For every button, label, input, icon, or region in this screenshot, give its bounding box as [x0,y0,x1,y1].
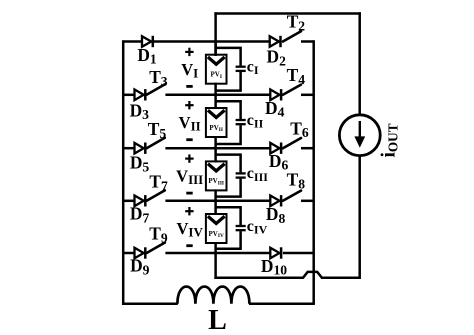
switch T3 lever [147,84,165,94]
svg-text:D4: D4 [265,98,285,120]
diode D1 [142,36,153,47]
wire center column top segment [214,12,217,56]
label D9 [130,256,150,278]
svg-text:T2: T2 [287,12,306,34]
svg-text:T9: T9 [149,224,168,246]
svg-text:D8: D8 [266,204,286,226]
label VII [179,113,201,134]
diode D2 [270,36,281,47]
wire row5 from left bus to D9 [123,252,134,255]
wire row2 from center column to D4 [214,94,270,97]
svg-text:PVIV: PVIV [209,230,224,239]
wire PVI box to lower node [214,83,217,96]
wire PVIV box to lower node [214,242,217,254]
svg-text:T3: T3 [149,67,168,89]
label plus terminal VII [185,101,193,109]
wire capacitor CI top stub [216,48,241,66]
svg-text:VI: VI [181,60,198,81]
label minus terminal VIII [186,192,192,195]
label minus terminal VIV [186,244,192,247]
wire row4 T8 fixed contact to inner bus [301,200,314,203]
svg-text:PVII: PVII [209,124,223,133]
wire row3 from center column to D6 [214,147,270,150]
svg-text:T4: T4 [287,65,306,87]
wire row4 from T7 fixed contact to center column [165,200,216,203]
svg-text:D6: D6 [269,151,289,173]
svg-text:D2: D2 [267,47,287,69]
svg-text:T7: T7 [149,172,168,194]
svg-text:VII: VII [179,113,201,134]
wire row3 T6 fixed contact to inner bus [301,147,314,150]
svg-text:iOUT: iOUT [379,123,401,157]
diode D5 [135,143,146,154]
label T6 [290,118,309,140]
label T9 [149,224,168,246]
wire row3 from left bus to D5 [123,147,134,150]
diode D3 [135,89,146,100]
svg-text:D7: D7 [130,204,150,226]
wire capacitor CIV bottom stub [216,231,241,249]
wire capacitor CII bottom stub [216,125,241,144]
label VIV [177,219,204,240]
wire PVIII box to lower node [214,189,217,202]
svg-text:T5: T5 [148,119,167,141]
wire row5 from D10 to inner bus [283,252,314,255]
svg-text:D5: D5 [130,153,150,175]
diode D8 [270,195,281,206]
wire row1 T2 fixed contact to inner bus [301,40,314,43]
svg-text:T8: T8 [287,170,306,192]
switch T4 lever [283,85,301,95]
label D1 [137,45,157,67]
wire PVII box to lower node [214,136,217,149]
label T4 [287,65,306,87]
label minus terminal VI [186,85,192,88]
svg-text:VIV: VIV [177,219,204,240]
switch T6 lever [283,138,301,148]
label T8 [287,170,306,192]
label D8 [266,204,286,226]
label T5 [148,119,167,141]
capacitor CII [236,120,246,124]
svg-text:D9: D9 [130,256,150,278]
label VIII [176,167,203,188]
wire center column bottom segment to return node [214,253,217,279]
label plus terminal VI [185,48,193,56]
label VI [181,60,198,81]
photovoltaic module PVIII [206,161,227,190]
label T7 [149,172,168,194]
svg-text:L: L [208,305,227,335]
wire column row3 junction to PVIII box [214,147,217,162]
wire column row1 junction to PVI box [214,40,217,55]
svg-text:cII: cII [247,112,264,131]
svg-text:cIII: cIII [247,165,268,184]
svg-text:T6: T6 [290,118,309,140]
diode D10 [270,247,281,258]
label T2 [287,12,306,34]
diode D6 [270,143,281,154]
label CIII [247,165,268,184]
wire capacitor CII top stub [216,101,241,119]
wire column row2 junction to PVII box [214,94,217,109]
label CI [247,59,259,78]
label D4 [265,98,285,120]
label plus terminal VIV [185,207,193,215]
label plus terminal VIII [185,154,193,162]
photovoltaic module PVI [206,55,227,84]
wire row5 from center column to D10 [214,252,270,255]
wire outer right bus upper segment [358,12,361,115]
wire row1 from left bus to D1 [123,40,142,43]
label iOUT [379,123,401,157]
capacitor CIV [236,226,246,230]
label L [208,305,227,335]
label D3 [130,100,150,122]
capacitor CI [236,67,246,71]
label D7 [130,204,150,226]
label minus terminal VII [186,138,192,141]
diode D7 [135,195,146,206]
inductor L [177,287,249,304]
wire bottom left segment [122,303,178,306]
photovoltaic module PVII [206,108,227,137]
wire row2 from left bus to D3 [123,94,134,97]
svg-text:D10: D10 [261,256,287,278]
wire bottom right segment [249,303,315,306]
label CII [247,112,264,131]
switch T7 lever [147,190,165,200]
label T3 [149,67,168,89]
switch T9 lever [147,243,165,253]
svg-text:D3: D3 [130,100,150,122]
label D2 [267,47,287,69]
wire row2 from T3 fixed contact to center column [165,94,216,97]
switch T2 lever [283,31,301,41]
wire capacitor CIII top stub [216,155,241,173]
diode D9 [135,247,146,258]
switch T8 lever [283,191,301,201]
wire top from PV string plus node to outer bus [214,12,361,15]
label CIV [247,218,268,237]
wire capacitor CIII bottom stub [216,179,241,197]
wire column row4 junction to PVIV box [214,200,217,215]
wire row4 from left bus to D7 [123,200,134,203]
wire capacitor CIV top stub [216,207,241,225]
switch T5 lever [147,138,165,148]
wire inner right bus [312,40,315,304]
capacitor CIII [236,173,246,177]
svg-text:VIII: VIII [176,167,203,188]
svg-text:cIV: cIV [247,218,268,237]
label D5 [130,153,150,175]
wire row2 T4 fixed contact to inner bus [301,94,314,97]
wire row4 from center column to D8 [214,200,270,203]
wire left bus [122,40,125,305]
current source iOUT [339,115,380,156]
svg-text:PVI: PVI [210,71,221,80]
svg-text:cI: cI [247,59,259,78]
photovoltaic module PVIV [206,214,227,243]
diode D4 [270,89,281,100]
wire row3 from T5 fixed contact to center column [165,147,216,150]
svg-text:PVIII: PVIII [208,177,224,186]
wire outer right bus lower segment [358,155,361,279]
wire capacitor CI bottom stub [216,72,241,91]
wire row5 from T9 fixed contact to center column [165,252,216,255]
wire return from current source to PV string minus node with hop over inner bus [214,272,359,278]
label D10 [261,256,287,278]
label D6 [269,151,289,173]
wire row1 from D1 to D2 [154,40,270,43]
svg-text:D1: D1 [137,45,157,67]
